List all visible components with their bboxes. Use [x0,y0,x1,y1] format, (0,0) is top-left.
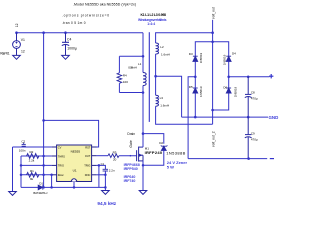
pin GND left [52,174,57,176]
inductor L3 [156,95,159,106]
junction volt_out top rail [211,31,214,34]
wire D3 anode down [194,61,196,76]
junction center tap [154,75,157,78]
diode D2 zener [161,145,168,150]
wire THRS row [21,155,52,157]
svg-text:Rser=0.1: Rser=0.1 [0,52,10,56]
svg-text:BAT42WS-J: BAT42WS-J [33,191,48,195]
transistor M1 IRFP240 [137,147,143,162]
wire pin4 drop [51,175,53,188]
svg-text:NE555: NE555 [71,150,81,154]
svg-text:IRFP540: IRFP540 [124,167,138,171]
wire D3 jog [195,42,212,56]
svg-text:12: 12 [15,23,19,27]
pin THRS [52,155,57,157]
svg-text:Rosc: Rosc [58,173,65,177]
wire DIS drop to bottom row [98,165,100,187]
wire drain vertical / primary branch [142,33,144,73]
junction R1 row x51.6 [50,174,53,177]
wire R1 row [21,174,52,176]
svg-text:0.08mH: 0.08mH [128,66,137,70]
ground under M1 source [139,191,147,195]
svg-text:.Model NE555D aka NE555D (Vpk=: .Model NE555D aka NE555D (Vpk=2x) [73,2,136,6]
junction V1 top [15,31,18,34]
capacitor C9 [245,117,252,159]
diode D3 [193,56,198,61]
wire OUT row [97,155,108,157]
wire snubber top [119,55,143,57]
diode D6 [226,88,231,93]
ground under V1 [13,55,21,59]
svg-text:L3: L3 [160,96,164,100]
svg-text:C1: C1 [101,162,105,166]
capacitor C2 [22,143,26,147]
resistor R2 [27,154,39,159]
wire DIS row right [97,165,106,169]
resistor R4 [117,73,122,83]
diode D5 [193,88,198,93]
svg-text:THRS: THRS [58,154,65,158]
junction D4 plus rail [227,76,230,79]
junction D1 cathode [42,186,45,189]
svg-text:C2: C2 [21,139,25,143]
wire zener bottom [143,150,164,165]
resistor R1 [27,172,39,177]
wire TRIG row [21,164,52,166]
junction D3 anode [194,76,197,79]
node minus terminal [270,158,274,160]
junction volt_out diode jogs [211,41,214,44]
node plus terminal [269,74,273,78]
wire volt_out vertical [212,20,214,124]
svg-text:100: 100 [123,80,128,84]
capacitor C5 [103,169,108,171]
junction source zener rail [142,164,145,167]
wire RST jog [44,120,99,147]
svg-text:1N5819: 1N5819 [222,54,226,65]
junction snubber bottom [142,91,145,94]
svg-text:L2: L2 [160,45,164,49]
svg-text:DNC: DNC [85,173,91,177]
svg-text:R5: R5 [113,150,117,154]
junction cap pin4 row [104,174,107,177]
resistor R5 [108,154,119,158]
svg-text:2.2k: 2.2k [29,158,35,162]
ground under C5 [102,191,110,195]
wire snubber left bottom [118,83,120,92]
pin VCC right [92,174,97,176]
svg-text:5 W: 5 W [167,164,174,169]
svg-text:volt_out_2: volt_out_2 [211,131,215,147]
wire plus rail [229,76,270,78]
wire source down [142,161,144,191]
wire left rail2 [20,156,22,187]
svg-text:20: 20 [113,157,117,161]
pin OUT [92,155,97,157]
svg-text:12: 12 [21,50,25,54]
svg-text:1000µ: 1000µ [67,47,77,51]
inductor L1 [143,73,146,86]
ground under C4 [62,55,70,59]
wire center tap to gnd rail [156,76,182,117]
wire snubber bottom [119,92,143,94]
wire VCC pin row to cap [97,174,106,176]
svg-text:U1: U1 [73,169,77,173]
junction C4 top [64,31,67,34]
svg-text:470µ: 470µ [251,138,258,142]
pin DIS [92,164,97,166]
wire minus rail [188,158,267,160]
svg-text:CV: CV [58,145,62,149]
wire left rail to ground [12,147,14,192]
junction snubber top [142,55,145,58]
voltage source V1 [13,33,21,56]
pin TRIG [52,164,57,166]
svg-text:R2: R2 [30,150,34,154]
svg-text:1.6mH: 1.6mH [161,52,170,56]
svg-text:R1: R1 [30,169,34,173]
svg-text:TRIG: TRIG [58,164,64,168]
wire D3 node to minus rail [188,77,195,159]
junction C9 bottom [247,157,250,160]
junction supply drop [42,31,45,34]
junction gnd pin bottom [73,186,76,189]
capacitor C4 [62,33,69,56]
junction volt_out D6 row [211,109,214,112]
svg-text:C4: C4 [67,38,71,42]
wire gnd rail [182,116,268,118]
svg-text:1.6mH: 1.6mH [160,103,169,107]
svg-text:1N5819: 1N5819 [199,86,203,97]
wire D4 jog [213,42,229,56]
diode D4 [226,56,231,61]
wire D6 to volt_out row [213,93,229,110]
svg-text:1N5819: 1N5819 [234,86,238,97]
svg-text:K1 L1 L2 L3 0.998: K1 L1 L2 L3 0.998 [141,13,167,17]
junction R1 row x43.6 [42,174,45,177]
svg-text:RST: RST [85,145,91,149]
svg-text:.options plotwinsize=0: .options plotwinsize=0 [62,13,109,17]
svg-text:100n: 100n [19,149,26,153]
wire supply drop to 555 area [43,33,45,188]
wire D5 to gnd rail [194,77,196,88]
junction TRIG left [20,164,23,167]
wire transformer core [148,32,150,122]
wire secondary top rail [156,33,213,43]
inductor L2 [156,43,159,54]
svg-text:IRF740: IRF740 [124,179,136,183]
svg-text:D5: D5 [189,85,193,89]
svg-text:IRFP240: IRFP240 [145,150,163,155]
svg-text:C9: C9 [251,131,255,135]
wire snubber left top [118,56,120,73]
pin RST [92,146,97,148]
svg-text:1N5388B: 1N5388B [166,151,185,156]
wire bottom row [21,186,105,188]
svg-text:2.2n: 2.2n [109,169,115,173]
wire L3 bottom rail [156,106,213,124]
svg-text:OUT: OUT [85,154,91,158]
svg-text:D1: D1 [39,182,43,186]
wire top bus from V1 to primary [17,32,144,34]
svg-text:V1: V1 [21,38,25,42]
capacitor C8 [245,77,252,117]
svg-text:.tran 0 5 1m 0: .tran 0 5 1m 0 [62,21,86,25]
svg-text:volt_out: volt_out [211,7,215,19]
svg-text:Drain: Drain [127,132,135,136]
junction supply to RST branch [42,119,45,122]
junction THRS x43.6 [42,155,45,158]
diode D1 [38,185,43,190]
svg-text:GND: GND [269,115,279,120]
junction R1 row left [20,174,23,177]
junction bottom row right [104,186,107,189]
junction zener branch [142,132,145,135]
junction D5 gnd rail [194,116,197,119]
op-amp U1 NE555 body [57,145,92,182]
junction pin4 drop bottom [50,186,53,189]
junction TRIG x43.6 [42,164,45,167]
svg-text:1:4:4: 1:4:4 [147,22,155,26]
svg-text:1N5819: 1N5819 [199,52,203,63]
junction C8 bottom [247,116,250,119]
junction C8 top [247,76,250,79]
svg-text:Gate: Gate [129,140,133,147]
svg-text:D6: D6 [223,85,227,89]
svg-text:TRIG: TRIG [84,164,90,168]
svg-text:470µ: 470µ [251,97,258,101]
wire C5 down to ground [104,171,106,191]
svg-text:R4: R4 [123,73,127,77]
wire gate [119,155,136,157]
junction DIS row [98,164,101,167]
ground left rail [9,192,17,196]
svg-text:D4: D4 [232,52,236,56]
wire CV row [13,146,52,148]
wire D4 anode down [228,61,230,88]
pin GND bottom stub [73,182,75,188]
svg-text:94,5 kHz: 94,5 kHz [97,201,116,206]
wire secondary middle [155,54,157,95]
svg-text:D3: D3 [189,52,193,56]
svg-text:C8: C8 [251,90,255,94]
svg-text:L1: L1 [138,62,142,66]
wire zener branch top [143,134,164,144]
pin CV [52,146,57,148]
svg-text:9k: 9k [30,177,34,181]
svg-text:D2: D2 [159,141,163,145]
